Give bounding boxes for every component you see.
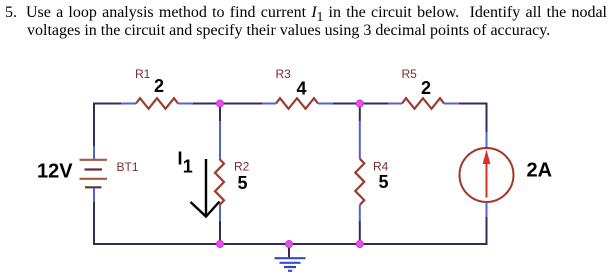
svg-text:12V: 12V bbox=[37, 161, 73, 183]
svg-text:5: 5 bbox=[379, 172, 389, 192]
resistor R2 bbox=[215, 159, 224, 205]
wire R1 to node 1 bbox=[178, 103, 276, 105]
wire middle-1 vertical upper bbox=[219, 104, 221, 160]
bottom junction dot right bbox=[356, 241, 363, 248]
bottom junction dot left bbox=[217, 241, 224, 248]
svg-text:R5: R5 bbox=[402, 67, 418, 81]
svg-text:I: I bbox=[178, 148, 183, 168]
battery BT1 bbox=[80, 160, 108, 188]
resistor R1 bbox=[136, 98, 178, 109]
wire left vertical upper bbox=[93, 103, 95, 160]
svg-text:BT1: BT1 bbox=[117, 160, 139, 174]
svg-text:R1: R1 bbox=[135, 67, 151, 81]
svg-text:2A: 2A bbox=[527, 160, 553, 182]
wire bottom horizontal bbox=[93, 243, 488, 245]
node 2 junction dot (top) bbox=[356, 100, 363, 107]
svg-text:2: 2 bbox=[421, 78, 431, 98]
current arrow I1 bbox=[191, 159, 220, 217]
resistor R5 bbox=[402, 98, 444, 109]
problem statement line 1 bbox=[5, 4, 17, 21]
problem statement line 2 bbox=[27, 22, 550, 39]
resistor R4 bbox=[355, 159, 364, 205]
ground stem bbox=[288, 244, 290, 258]
current source arrow bbox=[483, 150, 491, 198]
resistor R3 bbox=[276, 98, 318, 109]
I1 label bbox=[178, 148, 193, 176]
svg-text:2: 2 bbox=[154, 76, 164, 96]
svg-text:R2: R2 bbox=[234, 160, 250, 174]
wire middle-2 vertical upper bbox=[359, 104, 361, 159]
wire right vertical upper bbox=[486, 103, 488, 149]
wire middle-2 vertical lower bbox=[359, 205, 361, 244]
current source 2A circle bbox=[460, 148, 514, 202]
wire middle-1 vertical lower bbox=[219, 205, 221, 244]
bottom junction dot ground bbox=[286, 241, 293, 248]
wire right vertical lower bbox=[486, 202, 488, 245]
wire left vertical lower bbox=[93, 188, 95, 245]
wire top-left horizontal (node A run) bbox=[94, 103, 136, 105]
wire R3 to node 2 bbox=[318, 103, 402, 105]
svg-text:4: 4 bbox=[297, 78, 307, 98]
ground symbol bbox=[275, 258, 306, 271]
svg-text:1: 1 bbox=[183, 157, 193, 177]
svg-text:R3: R3 bbox=[276, 67, 292, 81]
svg-text:5: 5 bbox=[238, 173, 248, 193]
node 1 junction dot (top) bbox=[217, 100, 224, 107]
wire R5 to top-right corner bbox=[444, 103, 488, 105]
